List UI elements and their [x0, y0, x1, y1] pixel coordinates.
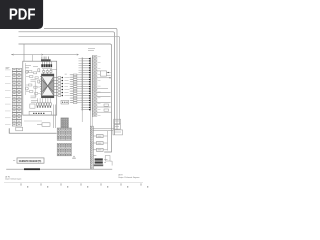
wires connector to right boxes: [93, 129, 114, 131]
main block frame U1 region: [23, 61, 57, 115]
wire into K1: [24, 120, 42, 122]
svg-text:Chapter 1 Schematic Diagram: Chapter 1 Schematic Diagram: [5, 178, 22, 181]
component box B5: [61, 100, 69, 104]
bottom connector CN3: [90, 126, 107, 169]
transistors Q1 Q2: [25, 66, 40, 103]
left ladder TP column: [5, 68, 22, 126]
table block T1: [61, 118, 69, 128]
wire pair into table: [54, 105, 56, 129]
footer text left: [5, 177, 22, 181]
wire stubs from IC bottom to resistor row: [38, 98, 51, 103]
box D3: [113, 130, 123, 135]
small component K1: [42, 123, 50, 127]
IC U1 main chip: [40, 74, 54, 98]
narrow pin column P2: [92, 55, 111, 126]
title label box: [17, 158, 44, 163]
ruler ticks: [4, 183, 149, 188]
table block T2: [57, 128, 71, 140]
resistor row under IC: [37, 103, 52, 106]
connector CN1 dark bar on frame: [41, 59, 51, 61]
label box under ladder: [16, 127, 23, 131]
svg-text:SCHEMATIC DIAGRAM (TV): SCHEMATIC DIAGRAM (TV): [19, 160, 42, 163]
passives between pads and IC: [43, 69, 52, 74]
wire vertical left inside frame: [25, 63, 27, 95]
node label text small: [88, 49, 95, 51]
tiny net label mid: [65, 73, 67, 75]
svg-text:Chapter 1 Schematic Diagrams: Chapter 1 Schematic Diagrams: [118, 176, 139, 179]
wire top bus 1: [44, 28, 117, 130]
PDF badge: [0, 0, 43, 29]
wire top bus 3: [19, 36, 120, 124]
wire ladder rail drops: [81, 111, 83, 122]
heavy segment: [24, 168, 40, 170]
svg-text:PDF: PDF: [9, 6, 36, 23]
wire top bus 2: [19, 32, 115, 135]
box D1: [114, 119, 121, 124]
pin net labels: [65, 78, 70, 96]
page background: [0, 0, 149, 198]
sub-circuit parts left of IC: [26, 71, 41, 98]
junction dots: [62, 77, 64, 97]
junction dots under resistor row: [37, 106, 51, 107]
wire drop from bus4: [23, 44, 25, 61]
ladder rungs: [70, 58, 91, 111]
flat connector box bottom of frame: [29, 111, 51, 115]
vertical branch: [107, 131, 109, 151]
footer text right: [118, 174, 139, 179]
connector CN2 dark pads row: [41, 64, 52, 67]
schematic bottom border: [6, 168, 112, 170]
wire top bus 4: [19, 44, 112, 152]
wire drop from arrow line: [32, 55, 34, 62]
svg-text:LG TV: LG TV: [118, 174, 123, 176]
table block T3: [57, 143, 71, 156]
net label left of frame: [6, 67, 10, 68]
wire from box: [110, 161, 112, 165]
resistor group RA1 vertical ticks: [42, 57, 48, 61]
small box lower-left in frame: [30, 104, 35, 108]
wire bottom-left long: [9, 128, 56, 133]
tiny mark left of title: [13, 160, 15, 162]
box D2: [114, 125, 121, 130]
dark cluster Q group: [95, 158, 103, 163]
ladder connector P1 rails: [82, 58, 91, 111]
triangle mark under table: [73, 156, 76, 159]
wire under pads: [42, 69, 57, 70]
small box near corner: [105, 156, 110, 161]
wire arrow dimension line: [11, 54, 78, 55]
resistor rows right of IC: [54, 78, 58, 96]
wire vertical inside frame: [34, 81, 36, 99]
wire ticks bar to pads: [42, 62, 51, 65]
